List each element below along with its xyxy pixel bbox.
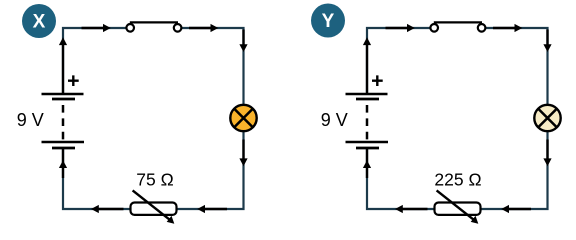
switch S (closed, top) <box>126 22 181 31</box>
arrow (left wire, up, below battery) <box>363 148 371 178</box>
arrow (bottom wire, left, pointing left) <box>91 205 124 213</box>
arrow (bottom wire, right, pointing left) <box>501 205 531 213</box>
arrow (left wire, up, above battery) <box>363 37 371 94</box>
badge X <box>22 4 56 38</box>
svg-text:225 Ω: 225 Ω <box>434 170 481 190</box>
badge Y <box>311 4 345 38</box>
svg-text:9 V: 9 V <box>17 110 44 130</box>
svg-text:9 V: 9 V <box>321 110 348 130</box>
arrow (right wire, down, below lamp) <box>239 140 247 167</box>
lamp L1 <box>230 105 256 131</box>
svg-text:X: X <box>33 12 46 33</box>
wire: right side + bottom + lower-left (node loop A) <box>63 28 244 209</box>
arrow (bottom wire, left, pointing left) <box>395 205 428 213</box>
arrow (bottom wire, right, pointing left) <box>197 205 227 213</box>
wire: upper-left + top to switch <box>63 28 131 94</box>
arrow (right wire, down) <box>543 30 551 53</box>
wire: upper-left + top to switch <box>367 28 435 94</box>
switch S2 (closed, top) <box>430 22 485 31</box>
battery B1 (9 V) <box>42 75 85 148</box>
arrow (right wire, down) <box>239 30 247 53</box>
arrow (top wire, before switch) <box>82 24 111 32</box>
arrow (top wire, after switch) <box>189 24 218 32</box>
lamp L2 <box>534 105 560 131</box>
arrow (top wire, before switch) <box>386 24 415 32</box>
battery B2 (9 V) <box>346 75 389 148</box>
arrow (left wire, up, below battery) <box>59 148 67 178</box>
svg-text:Y: Y <box>322 11 335 32</box>
variable resistor R2 (225 ohm) <box>435 190 481 223</box>
arrow (left wire, up, above battery) <box>59 37 67 94</box>
svg-text:75 Ω: 75 Ω <box>136 170 173 190</box>
wire: right side + bottom + lower-left (node loop B) <box>367 28 548 209</box>
arrow (top wire, after switch) <box>493 24 522 32</box>
variable resistor R1 (75 ohm) <box>131 190 177 223</box>
arrow (right wire, down, below lamp) <box>543 140 551 167</box>
